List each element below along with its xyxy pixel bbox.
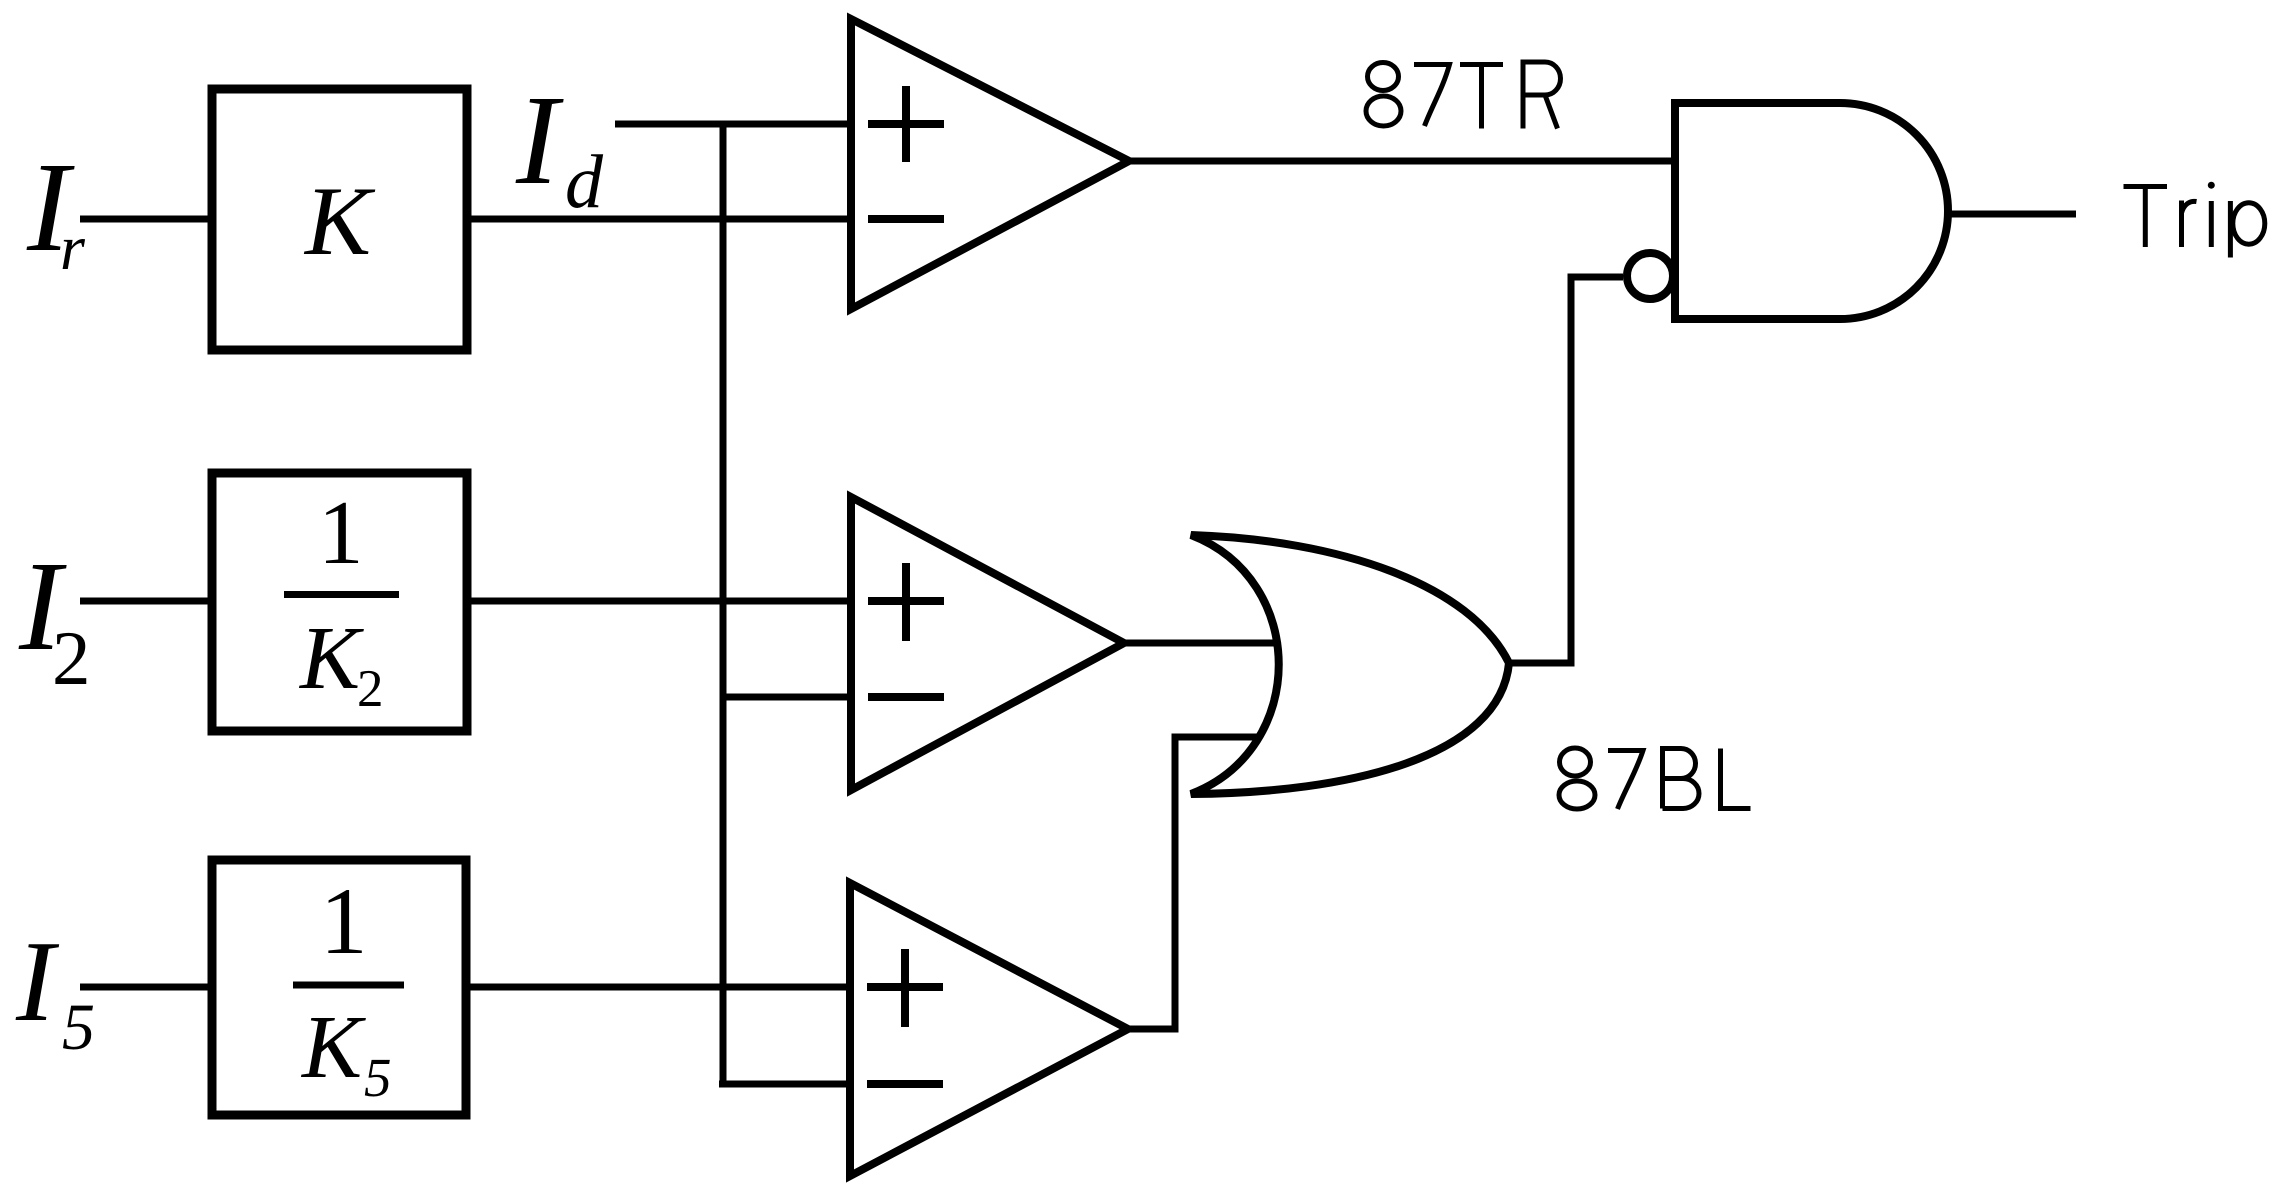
- svg-text:5: 5: [364, 1047, 392, 1108]
- svg-text:K: K: [303, 167, 376, 276]
- svg-text:2: 2: [52, 615, 91, 701]
- svg-text:K: K: [298, 609, 364, 708]
- svg-text:2: 2: [357, 660, 384, 718]
- svg-text:5: 5: [62, 991, 95, 1064]
- svg-text:K: K: [300, 998, 366, 1097]
- svg-text:I: I: [15, 918, 60, 1046]
- svg-text:I: I: [515, 69, 564, 211]
- svg-text:r: r: [60, 212, 86, 283]
- svg-text:1: 1: [320, 868, 368, 974]
- svg-text:d: d: [565, 140, 604, 224]
- svg-text:1: 1: [318, 482, 364, 583]
